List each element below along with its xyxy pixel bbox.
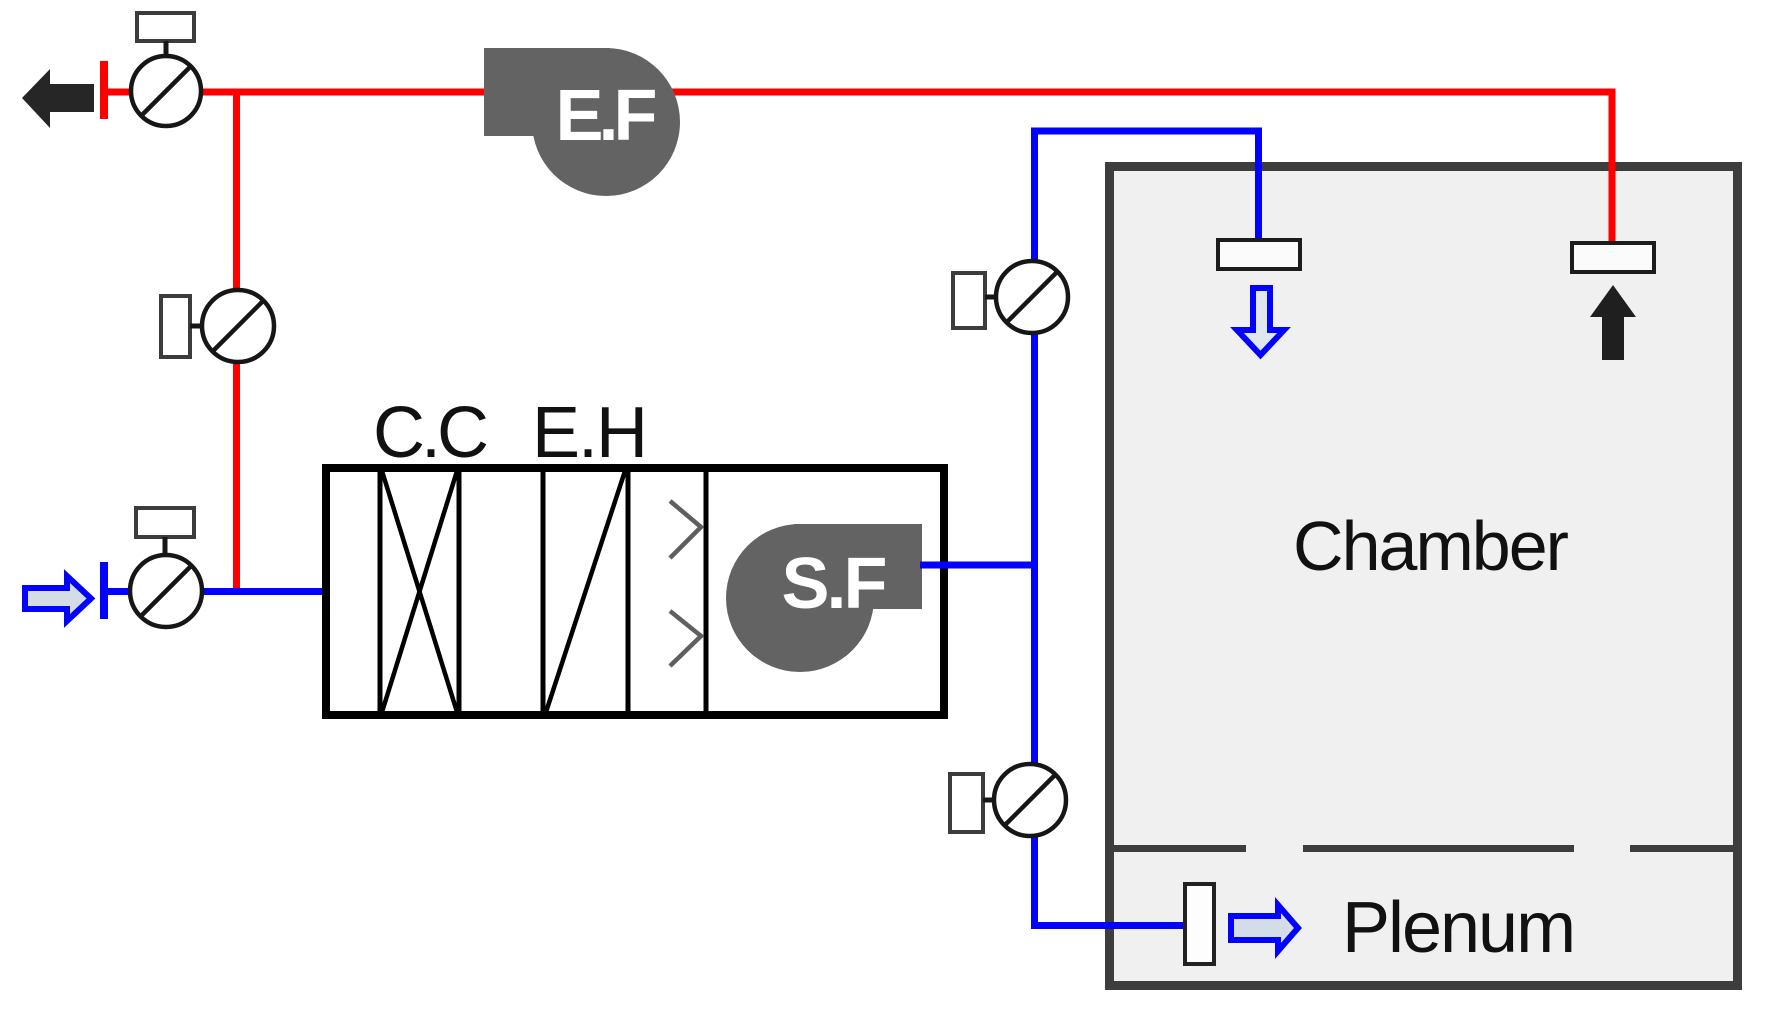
svg-text:Plenum: Plenum [1342,888,1574,968]
AHU divider 1 [378,472,383,711]
damper D4 on riser upper [953,261,1068,333]
inlet arrow blue right [25,576,91,621]
svg-text:E.H: E.H [532,393,646,473]
plenum separator dashed line [1107,845,1740,852]
wire red branch vertical [233,89,240,592]
svg-text:E.F: E.F [555,76,655,156]
wire blue plenum run [1031,922,1188,929]
wire blue inlet [103,588,330,595]
return grille rect [1572,243,1654,272]
wire blue supply out [920,562,1038,569]
blue end tick [100,562,108,619]
svg-text:C.C: C.C [373,393,487,473]
damper D1 on exhaust line [131,13,201,126]
AHU divider 5 [704,472,709,711]
chamber box [1110,167,1738,986]
plenum arrow blue right [1231,905,1298,951]
damper D2 on red branch [161,290,274,362]
wire red exhaust main [103,92,1612,247]
supply fan S.F [726,524,922,672]
electric heater E.H diagonal [546,471,625,712]
AHU divider 3 [541,472,546,711]
exhaust arrow black left [22,69,94,128]
red end tick [100,61,108,119]
svg-text:S.F: S.F [781,544,885,624]
supply diffuser rect [1218,240,1300,269]
wire blue riser with top run [1035,131,1259,926]
damper D3 on inlet [130,508,202,627]
damper D5 on riser lower [950,764,1066,836]
chevron 1 [670,501,701,558]
return up arrow black [1590,285,1636,360]
AHU box [326,468,944,715]
svg-text:Chamber: Chamber [1293,507,1569,585]
cooling coil C.C cross pattern [382,471,457,712]
AHU divider 4 [626,472,631,711]
exhaust fan E.F [484,48,680,196]
plenum inlet rect [1185,884,1214,964]
AHU divider 2 [457,472,462,711]
chevron 2 [670,611,701,666]
supply down arrow blue [1237,288,1284,355]
